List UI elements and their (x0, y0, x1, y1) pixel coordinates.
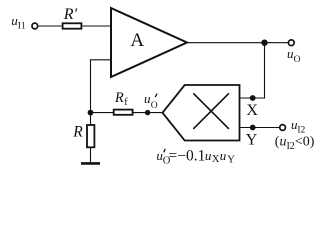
svg-text:u: u (205, 148, 212, 163)
multiplier M1 (163, 85, 240, 141)
label uO (287, 46, 301, 65)
svg-text:(uI2<0): (uI2<0) (275, 134, 315, 152)
svg-text:Y: Y (246, 132, 258, 149)
wire (82, 25, 111, 27)
ground (81, 162, 100, 165)
input terminal uI1 (32, 23, 38, 29)
svg-text:R: R (114, 90, 124, 106)
wire (uO to X input) (240, 43, 265, 98)
svg-text:I1: I1 (18, 21, 26, 31)
resistor R' (63, 23, 82, 28)
svg-text:O: O (294, 55, 301, 65)
wire (to op-amp noninverting input) (90, 59, 111, 61)
svg-text:A: A (130, 30, 144, 51)
node (Y pin) (250, 125, 256, 131)
multiplier cross (193, 93, 229, 129)
svg-text:=−0.1: =−0.1 (169, 148, 206, 165)
label uI1 (11, 13, 26, 31)
svg-text:R: R (72, 124, 83, 141)
wire (38, 25, 62, 27)
label uI2 (291, 117, 306, 136)
svg-text:u: u (220, 148, 227, 163)
label (uI2&lt;0) (275, 134, 315, 152)
svg-text:O: O (151, 101, 158, 111)
node uO' (145, 110, 150, 115)
resistor R (87, 125, 94, 147)
node (output junction) (261, 40, 267, 46)
svg-text:X: X (212, 154, 220, 165)
wire (node uO' to multiplier) (134, 112, 163, 114)
wire (op-amp output) (187, 42, 288, 44)
svg-text:X: X (246, 102, 258, 119)
label uO' (144, 91, 158, 111)
input terminal uI2 (280, 125, 286, 131)
node (feedback junction) (88, 110, 94, 116)
output terminal uO (288, 40, 294, 46)
label Rf (114, 90, 128, 108)
resistor Rf (114, 110, 133, 115)
formula uO' = -0.1 uX uY (156, 148, 235, 167)
wire (90, 148, 92, 163)
op-amp U1 (111, 8, 187, 77)
svg-text:R′: R′ (63, 6, 78, 23)
node (X pin) (250, 95, 256, 101)
wire (91, 112, 114, 114)
wire (Y pin to uI2) (240, 127, 280, 129)
svg-text:Y: Y (227, 155, 235, 166)
wire (feedback vertical) (90, 60, 92, 125)
